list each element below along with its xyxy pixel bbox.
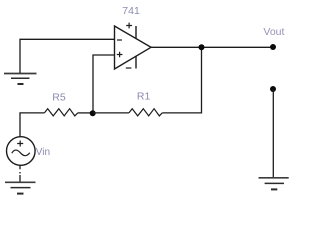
minus sign inverting input <box>117 39 122 41</box>
op-amp triangle body <box>115 26 152 69</box>
pin V- stub <box>135 56 137 68</box>
plus sign non-inverting input <box>117 52 123 58</box>
wire non-inverting input net: from node A up to op-amp plus input <box>93 55 115 113</box>
svg-text:741: 741 <box>122 5 140 17</box>
plus sign V+ power <box>126 23 132 29</box>
wire R5 right lead to node A <box>78 112 93 114</box>
minus sign V- power <box>126 67 132 69</box>
terminal return dot (below Vout) <box>270 86 276 92</box>
terminal Vout dot <box>270 44 276 50</box>
pin V+ stub <box>135 26 137 39</box>
wire R1 right lead up to output net <box>162 47 201 113</box>
resistor R1 <box>129 109 162 116</box>
wire node A to R1 left lead <box>93 112 129 114</box>
op-amp U1 741 <box>115 23 152 69</box>
resistor R5 <box>44 109 77 116</box>
wire Vin bottom to GND2 <box>19 166 21 183</box>
wire return terminal down to GND3 <box>272 89 274 178</box>
plus sign inside source <box>17 141 23 147</box>
source circle <box>6 137 35 166</box>
svg-text:Vin: Vin <box>36 147 50 158</box>
ground GND3 bottom-right <box>259 178 289 190</box>
wire output net: op-amp apex to Vout terminal <box>151 46 273 48</box>
svg-text:R1: R1 <box>137 91 151 103</box>
wire Vin top to R5 left lead <box>20 113 44 137</box>
wire inverting input net: GND1 up and right to op-amp minus input <box>20 39 115 73</box>
svg-text:Vout: Vout <box>263 26 284 38</box>
node junction dot on output net <box>199 44 205 50</box>
sine wave inside source <box>12 150 30 156</box>
voltage source V1 Vin <box>6 137 35 166</box>
node A junction dot <box>90 110 96 116</box>
svg-text:R5: R5 <box>52 92 66 104</box>
ground GND2 bottom-left <box>5 182 36 193</box>
ground GND1 top-left <box>4 74 37 85</box>
